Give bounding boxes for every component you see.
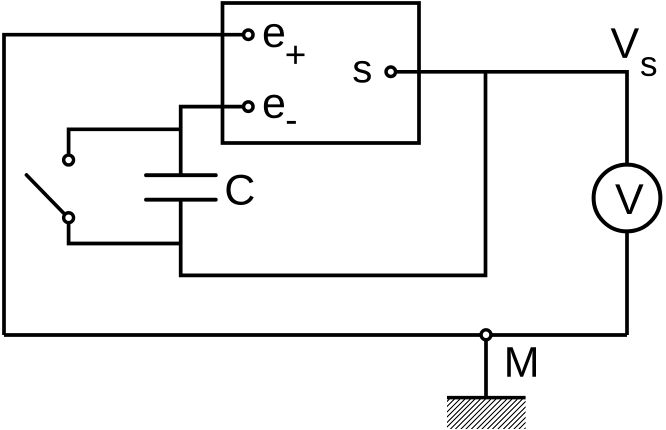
wire: switch bottom connection bbox=[69, 224, 181, 244]
label V meter bbox=[615, 184, 643, 214]
capacitor C top plate bbox=[146, 173, 216, 177]
capacitor C bottom plate bbox=[146, 198, 216, 202]
label Vs 'V' bbox=[611, 28, 639, 58]
label s bbox=[353, 61, 370, 83]
label e- 'e' bbox=[264, 95, 284, 119]
wire: s output to Vs corner bbox=[397, 72, 628, 164]
label C bbox=[226, 175, 253, 205]
switch S blade bbox=[27, 175, 64, 213]
switch S top contact bbox=[64, 155, 74, 165]
switch S bottom contact bbox=[64, 213, 74, 223]
wire: left vertical bus bbox=[4, 35, 243, 335]
voltmeter V bbox=[594, 165, 661, 232]
wire: switch top connection bbox=[69, 129, 181, 154]
wire: e- lead to capacitor top bbox=[181, 107, 243, 176]
ground hatching bbox=[414, 399, 560, 430]
label Vs 's' bbox=[641, 57, 656, 76]
wire: bottom horizontal to voltmeter bbox=[4, 333, 627, 337]
wire: voltmeter bottom lead bbox=[625, 233, 629, 336]
label e- '-' bbox=[287, 121, 296, 124]
wire: capacitor bottom to output branch bbox=[181, 72, 486, 276]
terminal e- bbox=[244, 102, 254, 112]
terminal e+ bbox=[244, 30, 254, 40]
terminal s bbox=[386, 67, 396, 77]
amplifier box U1 bbox=[223, 3, 420, 143]
label M bbox=[507, 347, 536, 377]
label e+ '+' bbox=[287, 46, 305, 64]
ground bar bbox=[447, 396, 526, 400]
node M junction bbox=[481, 330, 491, 340]
label e+ 'e' bbox=[264, 24, 284, 48]
wire: ground lead M bbox=[484, 341, 488, 398]
